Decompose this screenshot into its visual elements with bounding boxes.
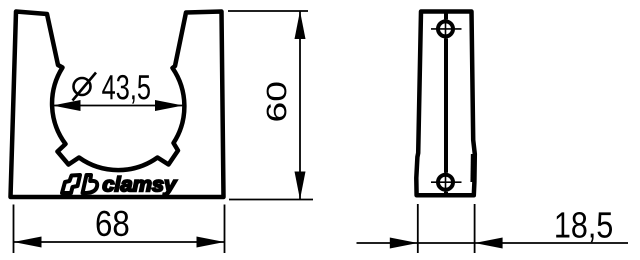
60 dim extension line top (228, 10, 308, 12)
logo glyph J (62, 175, 80, 193)
value 43,5 (102, 75, 150, 104)
18,5 dimension line with outside arrowheads (357, 242, 418, 244)
side view: clamp profile outline (416, 12, 475, 196)
side view right edge detail (470, 154, 476, 182)
hole top (438, 21, 453, 36)
front view: clamp body outline (11, 12, 224, 198)
18,5 dim extension line right (474, 204, 476, 253)
logo glyph b (83, 175, 98, 193)
hole bottom (438, 175, 453, 190)
60 dim extension line bottom (229, 199, 313, 201)
68 dimension line with arrowheads (14, 241, 225, 243)
value 60 (rotated) (267, 83, 287, 121)
diameter symbol (74, 78, 91, 95)
value 18,5 (556, 212, 612, 242)
value 68 (97, 211, 129, 237)
side view center edge line (444, 12, 448, 19)
diameter dimension line with arrowheads (53, 105, 184, 107)
68 dim extension line left (13, 205, 15, 254)
logo word (103, 176, 177, 195)
60 dimension line with arrowheads (299, 11, 301, 200)
68 dim extension line right (224, 205, 226, 254)
18,5 dim extension line left (417, 204, 419, 253)
